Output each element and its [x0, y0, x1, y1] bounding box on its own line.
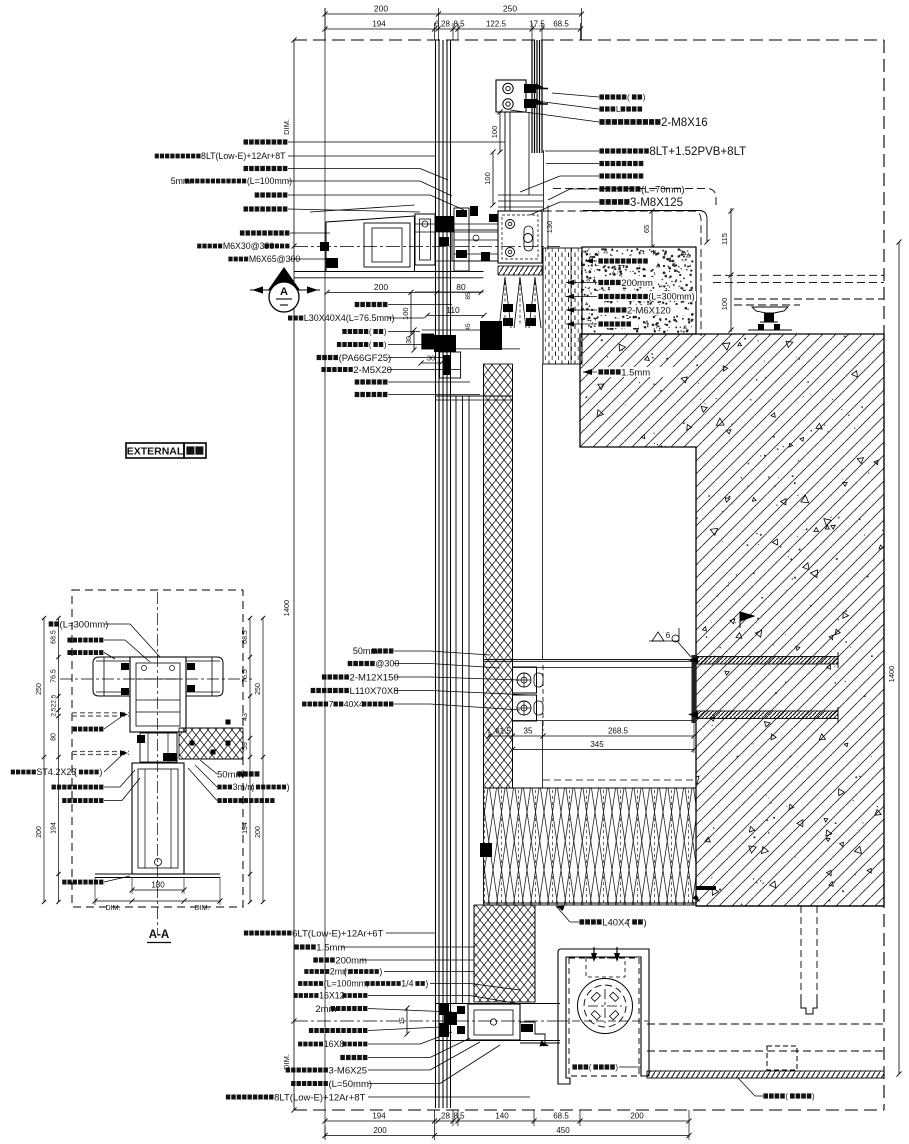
svg-text:59: 59	[242, 742, 249, 750]
transom connector box	[452, 230, 498, 261]
dim 110	[427, 314, 484, 316]
right vertical dim 1400	[898, 242, 900, 1074]
svg-text:61.5: 61.5	[495, 727, 511, 736]
vertical insulation coil column	[484, 364, 513, 788]
svg-text:3-M6X25: 3-M6X25	[328, 1065, 367, 1076]
bottom boundary dashed line	[294, 1109, 884, 1111]
svg-text:DIM.: DIM.	[106, 905, 121, 912]
section marker A	[250, 289, 320, 291]
A-A connector below	[140, 733, 177, 762]
svg-text:200: 200	[630, 1112, 644, 1121]
EXTERNAL label	[126, 443, 184, 458]
svg-text:2-M6X120: 2-M6X120	[627, 305, 671, 316]
label backing alu 2mm	[304, 969, 308, 974]
A-A left dim chains	[43, 618, 45, 902]
A-A label edge plate 2	[52, 785, 56, 790]
svg-text:110: 110	[446, 305, 460, 315]
svg-text:22.5: 22.5	[51, 694, 58, 707]
laminated glass 8LT+1.52PVB+8LT vertical lines	[531, 40, 533, 153]
label laminated glass 8LT+1.52PVB+8LT	[599, 148, 604, 153]
label stainless connector head	[599, 94, 604, 99]
A-A label alu sheet 3mm	[217, 785, 221, 790]
roller circle	[578, 979, 633, 1034]
hanger dashed box	[586, 958, 625, 977]
svg-text:8LT+1.52PVB+8LT: 8LT+1.52PVB+8LT	[649, 146, 746, 158]
svg-text:DIM.: DIM.	[195, 905, 210, 912]
A-A bottom glass lines	[95, 873, 220, 875]
floor pedestal	[752, 307, 788, 313]
svg-text:250: 250	[36, 683, 43, 695]
ceiling hatched strip	[647, 1071, 884, 1078]
label mullion sleeve L=300mm	[596, 291, 696, 301]
svg-text:(PA66GF25): (PA66GF25)	[339, 353, 392, 364]
svg-text:68.5: 68.5	[553, 20, 569, 29]
svg-text:8.5: 8.5	[453, 20, 465, 29]
svg-text:): )	[643, 917, 646, 928]
label alu adapter	[355, 392, 360, 397]
svg-text:140: 140	[495, 1112, 509, 1121]
svg-text:): )	[384, 327, 387, 336]
label ceiling	[763, 1093, 768, 1098]
A-A label horizontal trim bottom	[62, 880, 66, 885]
svg-text:(: (	[251, 782, 254, 792]
svg-text:L110X70X8: L110X70X8	[350, 686, 399, 697]
inner wall face lines	[542, 364, 544, 659]
label alu lining plate	[355, 302, 360, 307]
big bracket box 130	[498, 211, 542, 263]
label rivets 3-M6X25	[286, 1068, 290, 1073]
firestop bolts	[503, 304, 513, 312]
label glass 8LT bottom	[226, 1095, 230, 1100]
left vertical dim line with DIM/1400/DIM	[293, 40, 295, 1110]
svg-text:40X4: 40X4	[344, 699, 364, 709]
svg-text:200: 200	[255, 826, 262, 838]
hanger rods dashed	[800, 906, 802, 996]
svg-text:8.5: 8.5	[453, 1112, 465, 1121]
svg-text:7: 7	[329, 699, 334, 709]
A-A DIM labels	[95, 900, 220, 902]
svg-text:194: 194	[372, 20, 386, 29]
label firerock 200mm	[596, 277, 658, 287]
bottom of joint lines	[294, 271, 484, 273]
slab soffit line	[696, 905, 884, 907]
label angle L110X70X8	[311, 688, 316, 693]
A-A central mullion box	[130, 657, 186, 732]
vdim 30	[413, 330, 415, 350]
svg-text:200: 200	[373, 1126, 387, 1135]
label firerock 200mm bottom	[313, 957, 318, 962]
label alu transom 1	[599, 173, 604, 178]
svg-text:65: 65	[642, 225, 651, 233]
insulation pin plates M12	[513, 667, 537, 693]
label alu horizontal trim	[244, 206, 249, 211]
A-A label L=300mm	[49, 621, 54, 626]
mullion center body	[415, 214, 435, 265]
label insulated glass 8LT top	[155, 154, 159, 159]
A-A insulation strip	[179, 728, 243, 759]
svg-text:17.5: 17.5	[529, 20, 545, 29]
svg-text:6: 6	[435, 20, 440, 29]
center axis dashdot	[294, 245, 560, 247]
top dimension chain row1: 200 / 250	[324, 8, 326, 40]
crosshatched thermal strip	[498, 266, 542, 275]
curtain box outline	[558, 949, 649, 1084]
label stainless L connector	[599, 106, 604, 111]
svg-text:76.5: 76.5	[51, 669, 58, 683]
dim 200/80	[327, 291, 481, 293]
svg-text:(: (	[74, 767, 77, 777]
lower narrow insulation column	[474, 905, 535, 1002]
label galv steel 1.5mm	[294, 944, 299, 949]
svg-text:(: (	[369, 340, 372, 349]
label alu edge plate	[355, 379, 360, 384]
label glass 6LT bottom	[244, 931, 248, 936]
svg-text:(: (	[369, 327, 372, 336]
dim 15 rot	[406, 1008, 408, 1034]
label channel connector L=70mm	[599, 186, 604, 192]
top boundary dashed line	[294, 39, 884, 41]
label 7 plate 40X4	[302, 702, 306, 707]
svg-text:2.5: 2.5	[51, 707, 58, 716]
svg-text:250: 250	[255, 683, 262, 695]
label bolts M6X65@300	[228, 257, 232, 262]
long extension line x=325	[324, 8, 326, 1139]
svg-text:8LT(Low-E)+12Ar+8T: 8LT(Low-E)+12Ar+8T	[274, 1092, 365, 1103]
svg-text:68.5: 68.5	[242, 630, 249, 644]
bottom axis dashdot	[294, 1020, 560, 1022]
label css screws 2-M5X20	[321, 367, 325, 372]
joint internal lines	[415, 223, 498, 225]
svg-text:16X8: 16X8	[324, 1039, 345, 1049]
label sealant on block	[596, 256, 652, 265]
left sloped aluminium panel	[326, 216, 415, 272]
svg-text:200: 200	[374, 282, 388, 292]
svg-text:68.5: 68.5	[51, 630, 58, 644]
slab soffit angle	[696, 886, 716, 890]
svg-text:): )	[384, 340, 387, 349]
anchor bolt lower	[697, 711, 838, 719]
A-A label weather sealant	[217, 798, 221, 803]
svg-text:): )	[615, 1063, 618, 1072]
bottom transom frame	[436, 1003, 560, 1005]
svg-text:200: 200	[36, 826, 43, 838]
A-A lower tall box	[132, 763, 184, 874]
svg-text:30: 30	[406, 336, 413, 344]
dims 61.5/35/268.5 and 345	[489, 735, 694, 737]
label alu frame heat trim	[244, 166, 249, 171]
svg-text:): )	[643, 92, 646, 102]
svg-text:(L=70mm): (L=70mm)	[641, 184, 685, 195]
label small spacer	[596, 319, 638, 328]
svg-text:68.5: 68.5	[553, 1112, 569, 1121]
svg-text:130: 130	[545, 221, 554, 234]
label thermal break PA66GF25	[317, 355, 322, 360]
svg-text:180: 180	[151, 881, 165, 890]
svg-text:194: 194	[51, 822, 58, 834]
bottom dim row1	[434, 1110, 436, 1126]
svg-text:1400: 1400	[887, 666, 896, 683]
A-A wing panel right	[186, 657, 223, 696]
svg-text:1.5mm: 1.5mm	[621, 367, 650, 378]
svg-text:(L=300mm): (L=300mm)	[60, 619, 109, 630]
svg-text:1400: 1400	[282, 600, 291, 617]
galv angle under transom	[541, 1042, 560, 1044]
svg-text:(L=100mm,: (L=100mm,	[324, 979, 369, 989]
label alu clip L=100mm	[298, 981, 302, 986]
dim 30 small	[421, 362, 441, 364]
svg-text:250: 250	[503, 4, 517, 14]
label pin @300	[348, 661, 353, 666]
anchor bolt upper	[697, 657, 838, 665]
svg-text:L: L	[616, 104, 621, 114]
ceiling dashed lines	[647, 1023, 884, 1025]
svg-text:35: 35	[524, 727, 533, 736]
stainless steel spider bracket	[496, 80, 526, 112]
A-A right dim chains	[249, 618, 251, 902]
label structural sealant 16X8	[298, 1042, 302, 1047]
svg-text:16X12: 16X12	[319, 991, 345, 1001]
svg-text:): )	[287, 782, 290, 792]
svg-text:8LT(Low-E)+12Ar+8T: 8LT(Low-E)+12Ar+8T	[201, 151, 286, 161]
svg-text:ST4.2X25: ST4.2X25	[36, 767, 76, 777]
top dimension chain row2: 194/6/28/8.5/122.5/17.5/68.5	[434, 23, 436, 40]
label galv angle L40X4	[579, 919, 584, 924]
svg-text:100: 100	[720, 298, 729, 311]
axis end block	[320, 242, 329, 251]
label curtain box	[572, 1064, 577, 1069]
svg-text:345: 345	[590, 740, 604, 749]
A-A top connector lines to boundary	[72, 617, 243, 619]
vertical dim 100 upper	[499, 112, 501, 152]
A-A label ST4.2X25	[11, 770, 15, 775]
dashed line at beam top level 2	[544, 211, 701, 336]
svg-text:30: 30	[427, 354, 435, 363]
glass centerline extension	[543, 150, 545, 212]
vdim 65 beam edge	[651, 211, 653, 247]
svg-text:80: 80	[51, 733, 58, 741]
svg-text:(: (	[627, 92, 630, 102]
svg-text:45: 45	[465, 323, 472, 331]
svg-text:2-M8X16: 2-M8X16	[661, 117, 708, 129]
label angle L30X40X4	[288, 316, 292, 321]
svg-text:1.5mm: 1.5mm	[316, 942, 345, 953]
bottom dim row2	[325, 1135, 689, 1137]
big rockwool insulation block	[484, 788, 697, 905]
A-A label mullion	[67, 638, 71, 643]
A-A dashed screw lines left	[72, 712, 129, 714]
svg-text:L40X4: L40X4	[602, 917, 629, 928]
A-A label inner panel	[73, 727, 77, 732]
svg-text:122.5: 122.5	[486, 20, 507, 29]
curtain box inner dashed	[569, 958, 639, 1076]
label bolts 3-M8X125	[599, 199, 604, 205]
lower joint black parts	[480, 321, 502, 350]
svg-text:): )	[379, 967, 382, 977]
svg-text:(: (	[344, 967, 347, 977]
A-A horizontal axis	[60, 678, 252, 680]
firestop rockwool column	[543, 248, 582, 364]
svg-text:43: 43	[242, 713, 249, 721]
svg-text:(: (	[785, 1092, 788, 1101]
svg-text:): )	[425, 979, 428, 989]
raised floor dashed lines	[734, 298, 884, 300]
curtain wall glass panes vertical lines	[435, 40, 437, 1108]
svg-text:450: 450	[556, 1126, 570, 1135]
svg-text:115: 115	[720, 233, 729, 245]
svg-text:6LT(Low-E)+12Ar+6T: 6LT(Low-E)+12Ar+6T	[292, 928, 383, 939]
svg-text:80: 80	[456, 282, 466, 292]
svg-text:194: 194	[242, 822, 249, 834]
svg-text:200mm: 200mm	[621, 278, 653, 289]
label screws M6X30@300	[197, 244, 201, 249]
flag	[740, 612, 754, 628]
svg-text:): )	[812, 1092, 815, 1101]
mullion back lines	[455, 396, 457, 1004]
A-A label transom	[67, 650, 71, 655]
svg-text:A: A	[280, 286, 288, 298]
svg-text:200: 200	[374, 4, 388, 14]
svg-text:(L=50mm): (L=50mm)	[328, 1079, 372, 1090]
steel plate on slab edge	[692, 655, 697, 723]
svg-text:1/4: 1/4	[401, 979, 413, 989]
curtain track dashed box	[767, 1046, 797, 1070]
hanger rod lines from bracket down	[504, 112, 506, 211]
label bolts 2-M6X120	[596, 305, 684, 315]
label alu raised trim	[244, 139, 249, 144]
A-A center axis vertical	[157, 592, 159, 935]
svg-text:2-M5X20: 2-M5X20	[353, 365, 392, 376]
A-A wing panel left	[93, 657, 130, 696]
svg-text:15: 15	[399, 1017, 406, 1025]
svg-text:76.5: 76.5	[242, 669, 249, 683]
label structural sealant 16X12	[294, 993, 298, 998]
label alu edge pressure plate	[337, 342, 341, 347]
svg-text:3-M8X125: 3-M8X125	[630, 197, 683, 209]
firestop tents	[499, 277, 511, 328]
beam top solid line with fillet	[583, 211, 707, 243]
label alu subframe	[340, 1055, 345, 1060]
label bolts 2-M12X150	[322, 674, 327, 679]
solid vertical dim line x=731	[730, 208, 732, 332]
label alu core trim L=50mm	[291, 1081, 295, 1086]
weld symbol 6	[649, 628, 679, 641]
svg-text:6: 6	[666, 631, 671, 640]
label alu small clip	[255, 192, 260, 197]
vertical dim 100 lower	[492, 152, 494, 205]
vdim 100 joint	[410, 292, 412, 335]
svg-text:28: 28	[441, 20, 450, 29]
right boundary dashed vertical	[883, 40, 885, 1110]
svg-text:200mm: 200mm	[335, 955, 367, 966]
concrete upstand block speckled	[582, 247, 696, 334]
svg-text:(L=100mm): (L=100mm)	[247, 176, 292, 186]
A-A dashed boundary	[72, 590, 243, 907]
svg-text:L30X40X4(L=76.5mm): L30X40X4(L=76.5mm)	[304, 313, 395, 323]
svg-text:EXTERNAL: EXTERNAL	[127, 446, 184, 458]
svg-text:2-M12X150: 2-M12X150	[350, 672, 399, 683]
svg-text:194: 194	[372, 1112, 386, 1121]
svg-text:28: 28	[441, 1112, 450, 1121]
label alu pressure plate 3	[240, 230, 245, 235]
svg-text:(: (	[589, 1063, 592, 1072]
svg-text:DIM.: DIM.	[282, 119, 291, 135]
svg-text:): )	[99, 767, 102, 777]
label hex socket bolts 2-M8X16	[599, 119, 604, 125]
label weather sealant	[309, 1028, 313, 1033]
label galvanized sheet 1.5mm	[596, 367, 674, 377]
svg-text:100: 100	[483, 172, 492, 185]
label alu mullion 1	[599, 161, 604, 166]
horizontal angle lines	[484, 659, 695, 661]
A-A label vertical trim	[62, 798, 66, 803]
dashed line at beam top level 1	[553, 188, 716, 205]
svg-text:100: 100	[490, 126, 499, 139]
svg-text:A-A: A-A	[149, 929, 169, 941]
svg-text:268.5: 268.5	[608, 727, 629, 736]
A-A dim 180	[132, 889, 184, 891]
label alu hook plate	[342, 329, 346, 334]
connector horizontals above bracket	[498, 194, 543, 196]
svg-text:85: 85	[465, 292, 472, 300]
svg-text:(L=300mm): (L=300mm)	[648, 292, 694, 302]
